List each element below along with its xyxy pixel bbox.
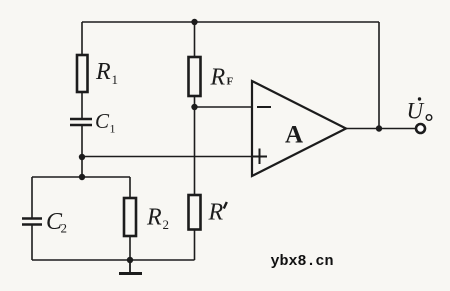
wire plus input [82, 156, 252, 158]
wire loop top [32, 176, 130, 178]
resistor R' [189, 195, 227, 230]
svg-text:F: F [227, 76, 234, 88]
resistor R1 [77, 55, 118, 92]
svg-text:R: R [210, 65, 226, 91]
resistor RF [189, 57, 234, 96]
op-amp U1 A [252, 81, 346, 176]
svg-text:2: 2 [163, 217, 170, 232]
svg-text:A: A [285, 122, 303, 149]
wire C1 down to loop [81, 126, 83, 177]
wire R' bottom lead [194, 230, 196, 261]
wire RF bottom to R' top [194, 96, 196, 195]
wire top rail [82, 21, 379, 23]
wire loop left lower [31, 225, 33, 260]
ground [119, 260, 142, 274]
svg-text:R: R [95, 59, 111, 85]
wire bottom rail [32, 259, 195, 261]
wire loop left upper [31, 177, 33, 218]
svg-text:1: 1 [112, 72, 119, 87]
node junction plus wire [79, 154, 85, 160]
svg-text:2: 2 [61, 221, 68, 236]
output terminal Uo [407, 97, 432, 133]
node junction ground [127, 257, 133, 263]
node junction output [376, 125, 382, 131]
resistor R2 [124, 198, 169, 236]
wire R1 to C1 [81, 92, 83, 118]
wire minus input [195, 106, 253, 108]
svg-text:R: R [146, 205, 162, 231]
node junction minus input [191, 104, 197, 110]
svg-text:R: R [208, 200, 224, 226]
capacitor C1 [70, 109, 116, 136]
svg-text:ybx8.cn: ybx8.cn [271, 253, 334, 270]
wire left column top [81, 22, 83, 55]
svg-text:U: U [407, 99, 425, 124]
wire feedback right vertical [378, 22, 380, 129]
svg-text:1: 1 [110, 122, 116, 136]
wire R2 bottom lead [129, 236, 131, 260]
node junction top RF [191, 19, 197, 25]
svg-text:C: C [95, 109, 110, 133]
wire RF top lead [194, 22, 196, 57]
capacitor C2 [22, 209, 67, 236]
wire R2 top lead [129, 177, 131, 198]
wire output [346, 128, 415, 130]
node junction loop top [79, 174, 85, 180]
